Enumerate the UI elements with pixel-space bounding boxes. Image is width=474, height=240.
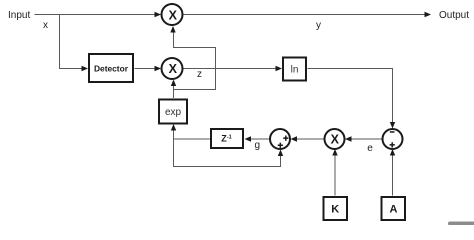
svg-text:K: K bbox=[331, 204, 339, 216]
svg-text:x: x bbox=[43, 20, 48, 31]
svg-text:exp: exp bbox=[165, 107, 182, 118]
svg-text:Detector: Detector bbox=[94, 64, 129, 74]
svg-text:e: e bbox=[367, 143, 373, 154]
svg-text:y: y bbox=[316, 20, 321, 31]
svg-text:g: g bbox=[255, 140, 261, 151]
svg-text:Input: Input bbox=[8, 10, 30, 21]
svg-text:X: X bbox=[169, 9, 178, 23]
svg-text:Output: Output bbox=[439, 10, 469, 21]
svg-text:ln: ln bbox=[291, 65, 299, 76]
svg-text:A: A bbox=[390, 204, 398, 216]
svg-text:z: z bbox=[197, 69, 202, 80]
svg-text:X: X bbox=[331, 132, 340, 146]
svg-text:X: X bbox=[169, 62, 178, 76]
